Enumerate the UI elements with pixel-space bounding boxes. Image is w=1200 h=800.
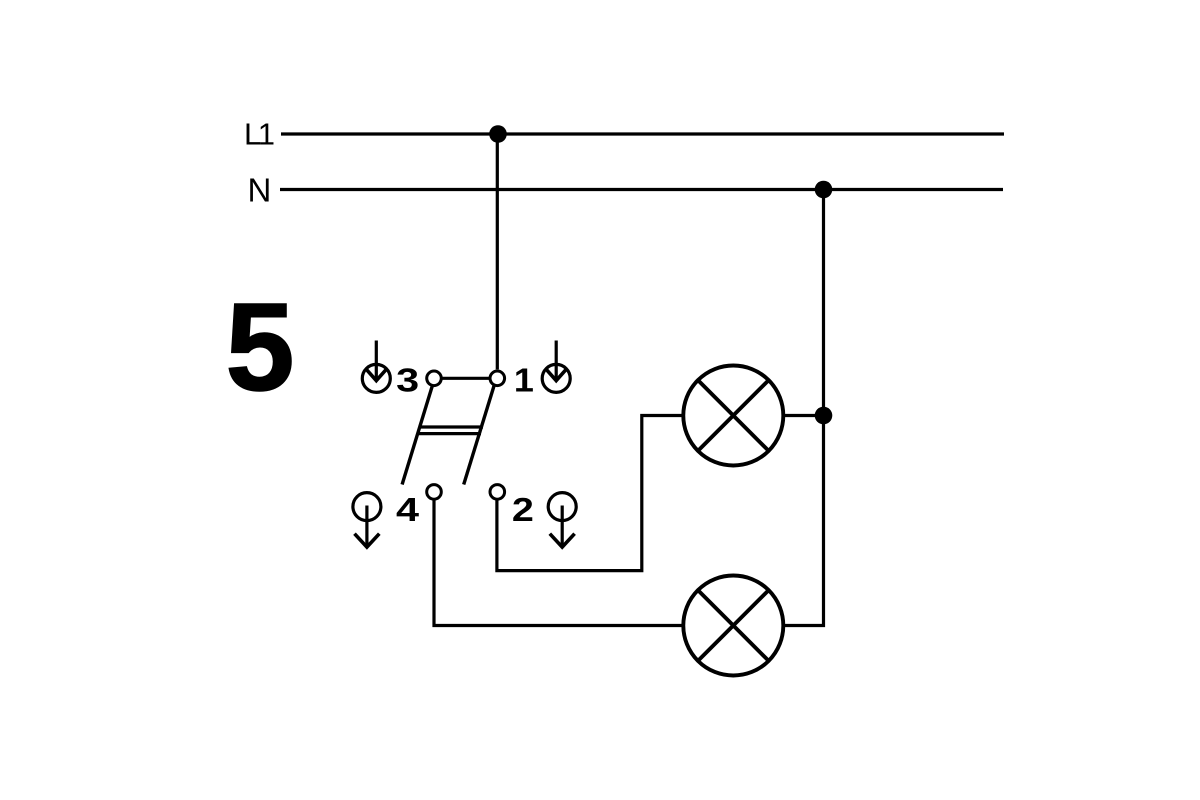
lamp E1 — [683, 366, 783, 466]
wire terminal 4 to lamp E2 — [434, 500, 683, 625]
wire terminal 2 to lamp E1 — [497, 416, 684, 571]
terminal 2 — [490, 485, 505, 500]
terminal 4 — [427, 485, 442, 500]
terminal 1 — [490, 371, 505, 386]
wire L1 line — [281, 132, 1004, 135]
wire N line — [280, 188, 1003, 191]
incoming feed arrow at terminal 1 — [542, 341, 570, 393]
junction at lamp E1 return — [815, 407, 833, 425]
svg-text:5: 5 — [226, 279, 295, 417]
junction on N — [815, 181, 833, 199]
svg-text:3: 3 — [396, 361, 419, 398]
outgoing feed arrow at terminal 4 — [353, 493, 381, 547]
svg-text:4: 4 — [396, 491, 420, 528]
svg-text:2: 2 — [512, 491, 534, 528]
lamp E2 — [683, 576, 783, 676]
svg-text:N: N — [248, 171, 272, 208]
svg-text:L1: L1 — [244, 117, 274, 152]
wire feed drop from L1 to terminal 1 — [496, 134, 499, 369]
switch lever b — [464, 385, 495, 484]
switch bridge terminal 3 to 1 — [441, 377, 490, 380]
wire lamp E1 to N drop — [784, 414, 824, 417]
svg-text:1: 1 — [514, 361, 534, 398]
wire N drop to lamp E2 — [785, 190, 824, 626]
incoming feed arrow at terminal 3 — [362, 341, 390, 393]
switch coupling crossbar — [418, 427, 484, 434]
outgoing feed arrow at terminal 2 — [548, 493, 576, 547]
junction on L1 — [489, 125, 507, 143]
switch lever a — [402, 385, 432, 484]
terminal 3 — [427, 371, 442, 386]
